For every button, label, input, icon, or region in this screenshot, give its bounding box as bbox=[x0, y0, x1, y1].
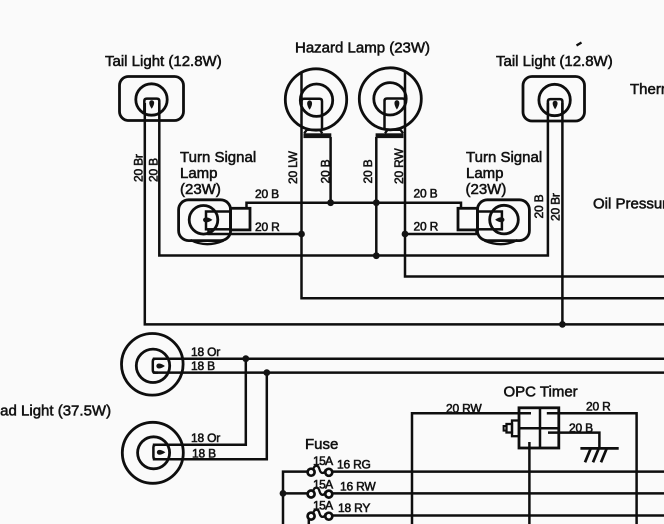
svg-text:20 B: 20 B bbox=[319, 159, 333, 183]
svg-text:Tail Light (12.8W): Tail Light (12.8W) bbox=[105, 53, 222, 70]
svg-text:20 B: 20 B bbox=[361, 159, 375, 183]
svg-text:15A: 15A bbox=[313, 454, 333, 468]
head light lower bulb plug bbox=[153, 445, 158, 460]
fuse 3 element bbox=[313, 510, 326, 517]
wire 18 Or head lights to right edge bbox=[153, 357, 664, 360]
wire 20 B bus left tail to right tail bbox=[159, 103, 548, 256]
svg-text:20 Br: 20 Br bbox=[549, 193, 563, 221]
turn signal lamp L filament bbox=[203, 217, 212, 222]
hazard lamp L filament bbox=[307, 100, 312, 109]
head light upper bulb plug bbox=[153, 359, 158, 373]
OPC timer connector bbox=[512, 421, 519, 437]
svg-text:Oil Pressure: Oil Pressure bbox=[593, 196, 664, 213]
svg-text:20 R: 20 R bbox=[414, 220, 439, 234]
turn signal lamp L body flange bbox=[191, 240, 224, 244]
junction 18 Or bbox=[242, 355, 249, 362]
svg-text:20 LW: 20 LW bbox=[286, 150, 300, 184]
tail light L bulb plug bbox=[144, 99, 159, 114]
OPC timer divider horizontal bbox=[519, 427, 559, 430]
fuse 2 element bbox=[313, 488, 326, 495]
svg-text:Tail Light (12.8W): Tail Light (12.8W) bbox=[496, 53, 613, 70]
head light upper outer circle bbox=[122, 334, 184, 396]
junction 20R/20RW bbox=[402, 231, 409, 238]
fuse 2 right cap bbox=[325, 491, 332, 498]
fuse 1 left cap bbox=[308, 469, 315, 476]
hazard lamp R inner circle bbox=[374, 83, 406, 115]
svg-text:20 B: 20 B bbox=[147, 158, 161, 182]
head light upper filament bbox=[156, 364, 165, 369]
wire 18 B link to lower head light bbox=[153, 373, 267, 460]
hazard lamp L outer circle bbox=[285, 69, 346, 130]
svg-text:Head Light (37.5W): Head Light (37.5W) bbox=[0, 403, 111, 420]
junction 20B bus bbox=[373, 252, 380, 259]
turn signal lamp L bulb bbox=[189, 206, 218, 235]
turn signal lamp R socket bbox=[477, 212, 502, 230]
tail light L housing bbox=[120, 77, 184, 121]
svg-text:18 Or: 18 Or bbox=[191, 431, 220, 445]
hazard lamp R outer circle bbox=[359, 68, 421, 130]
wire fuse 2 output 16 RW bbox=[333, 492, 664, 495]
turn signal lamp R body bbox=[477, 200, 529, 241]
tail light L bulb envelope bbox=[136, 84, 167, 115]
ground slash 3 bbox=[601, 449, 607, 462]
turn signal lamp L connector bbox=[231, 208, 251, 230]
junction 20B right hazard bbox=[373, 199, 380, 206]
wire 18 Or link to lower head light bbox=[153, 359, 246, 445]
svg-text:16 RW: 16 RW bbox=[340, 480, 376, 494]
junction fuse feed bbox=[280, 490, 287, 497]
svg-text:20 R: 20 R bbox=[255, 220, 280, 234]
svg-text:Turn Signal: Turn Signal bbox=[180, 149, 256, 166]
stray scan mark bbox=[577, 43, 582, 46]
fuse 1 right cap bbox=[325, 469, 332, 476]
hazard lamp R base neck bbox=[385, 130, 403, 134]
svg-text:20 R: 20 R bbox=[586, 400, 611, 414]
OPC timer box bbox=[519, 408, 559, 448]
wire 20 R left turn signal to junction bbox=[209, 229, 302, 234]
hazard lamp R bulb plug bbox=[385, 99, 406, 130]
head light lower inner circle bbox=[138, 437, 170, 469]
hazard lamp R filament bbox=[394, 100, 399, 109]
wire 20 B left hazard right lead down to 20B line bbox=[329, 137, 332, 203]
head light lower filament bbox=[157, 450, 166, 455]
fuse 3 right cap bbox=[325, 513, 332, 520]
wire fuse 2 left lead bbox=[283, 492, 308, 495]
wire 20 B from OPC timer to ground bbox=[548, 433, 599, 449]
OPC timer connector tip bbox=[504, 426, 507, 431]
junction 18 B bbox=[263, 369, 270, 376]
svg-text:18 RY: 18 RY bbox=[338, 501, 370, 515]
hazard lamp L base bar bbox=[304, 133, 332, 138]
turn signal lamp R connector bbox=[458, 208, 478, 230]
head light upper inner circle bbox=[136, 349, 169, 382]
head light lower outer circle bbox=[122, 422, 183, 483]
turn signal lamp L body bbox=[179, 200, 231, 241]
svg-text:Lamp: Lamp bbox=[466, 165, 504, 182]
turn signal lamp R bulb bbox=[490, 205, 519, 234]
svg-text:(23W): (23W) bbox=[180, 181, 221, 198]
svg-text:20 B: 20 B bbox=[414, 187, 438, 201]
hazard lamp L inner circle bbox=[300, 84, 332, 116]
svg-text:16 RG: 16 RG bbox=[337, 458, 371, 472]
wire 20 R right turn signal to junction bbox=[405, 230, 477, 234]
svg-text:Hazard Lamp (23W): Hazard Lamp (23W) bbox=[295, 40, 430, 57]
tail light R filament bbox=[553, 101, 558, 110]
svg-text:Turn Signal: Turn Signal bbox=[466, 149, 542, 166]
svg-text:18 B: 18 B bbox=[191, 359, 215, 373]
svg-text:20 B: 20 B bbox=[532, 194, 546, 218]
wire OPC timer bottom lead bbox=[528, 442, 531, 524]
svg-text:15A: 15A bbox=[313, 499, 333, 513]
wire fuse feed vertical bbox=[283, 472, 308, 524]
ground slash 1 bbox=[585, 449, 591, 462]
tail light R bulb envelope bbox=[539, 84, 570, 115]
svg-text:20 B: 20 B bbox=[569, 421, 593, 435]
ground slash 2 bbox=[593, 449, 599, 462]
svg-text:20 RW: 20 RW bbox=[392, 148, 406, 184]
tail light R housing bbox=[523, 77, 585, 122]
wire 20 B turn signal link line bbox=[247, 203, 462, 209]
svg-text:Fuse: Fuse bbox=[305, 436, 338, 453]
wire fuse 1 output 16 RG bbox=[333, 470, 664, 473]
turn signal lamp R filament bbox=[495, 217, 504, 222]
wire 20 R from OPC timer down to bottom edge bbox=[547, 413, 637, 524]
turn signal lamp L socket bbox=[206, 212, 231, 230]
wire fuse 3 bottom stub bbox=[308, 519, 311, 524]
wire 20 Br bus from left tail light to right edge bbox=[145, 103, 664, 324]
ground bar bbox=[580, 447, 618, 450]
wire 18 B head lights to right edge bbox=[153, 371, 664, 374]
wire 20 RW right hazard down, corner, to right edge bbox=[405, 72, 664, 277]
svg-text:(23W): (23W) bbox=[466, 181, 507, 198]
fuse 1 element bbox=[313, 466, 326, 473]
svg-text:18 B: 18 B bbox=[192, 447, 216, 461]
svg-text:OPC Timer: OPC Timer bbox=[504, 384, 578, 401]
OPC timer divider vertical bbox=[539, 408, 542, 448]
wire 20 Br right tail right lead down to 20Br bus bbox=[561, 103, 564, 324]
hazard lamp L bulb plug bbox=[302, 99, 323, 130]
turn signal lamp R body flange bbox=[485, 240, 518, 244]
svg-text:20 B: 20 B bbox=[255, 187, 279, 201]
junction 20R/20LW bbox=[298, 231, 305, 238]
fuse 3 left cap bbox=[308, 513, 315, 520]
fuse 2 left cap bbox=[308, 491, 315, 498]
svg-text:Thermo: Thermo bbox=[630, 81, 664, 98]
wire 20 RW from OPC timer down to bottom edge bbox=[412, 413, 531, 524]
OPC timer connector nub bbox=[507, 424, 513, 433]
wire 20 B right hazard left lead down to bus bbox=[375, 137, 378, 256]
tail light R bulb plug bbox=[548, 99, 563, 114]
tail light L filament bbox=[149, 100, 154, 109]
svg-text:15A: 15A bbox=[313, 478, 333, 492]
svg-text:20 RW: 20 RW bbox=[446, 402, 482, 416]
wire fuse 3 output 18 RY bbox=[333, 514, 664, 517]
hazard lamp R base bar bbox=[376, 133, 404, 138]
svg-text:Lamp: Lamp bbox=[180, 165, 218, 182]
hazard lamp L base neck bbox=[304, 130, 322, 134]
svg-text:18 Or: 18 Or bbox=[191, 345, 220, 359]
svg-text:20 Br: 20 Br bbox=[132, 154, 146, 182]
junction 20B left hazard bbox=[327, 199, 334, 206]
junction 20Br bus bbox=[559, 321, 566, 328]
wire 20 LW left hazard down, corner, to right edge bbox=[302, 73, 664, 299]
